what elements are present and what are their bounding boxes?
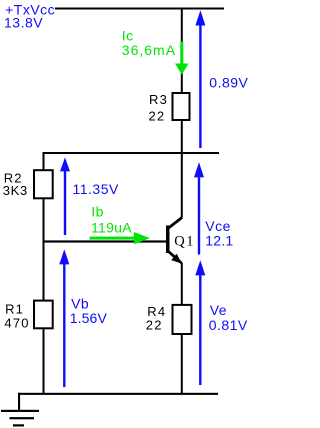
svg-text:Ib: Ib [91,204,104,220]
svg-text:470: 470 [4,316,29,331]
wire collector vertical [181,153,183,218]
wire collector top segment [181,8,183,92]
label Vb [70,296,108,326]
label Ve [209,302,248,333]
svg-text:119uA: 119uA [91,220,132,236]
svg-text:22: 22 [149,108,166,123]
voltage arrow Vce [194,162,204,254]
label R2 [3,171,28,198]
wire R3 bottom to mid rail [181,121,183,153]
resistor R1 [34,301,53,329]
svg-text:Ve: Ve [210,302,227,318]
current arrow Ib [90,232,150,244]
label R4 [146,304,167,333]
wire mid rail [43,152,220,154]
voltage arrow Ve [195,260,205,385]
transistor Q1 [166,218,182,264]
wire bottom rail [18,393,218,395]
svg-text:13.8V: 13.8V [4,15,43,31]
wire emitter vertical [181,263,183,305]
label R3 [149,92,169,123]
svg-text:R1: R1 [5,301,24,316]
svg-text:0.81V: 0.81V [209,317,248,333]
wire base [43,240,166,242]
wire top rail [55,8,224,10]
svg-text:Ic: Ic [122,28,134,44]
resistor R3 [173,93,190,120]
wire R4 bottom [181,335,183,394]
label Ic value [122,28,176,59]
svg-text:22: 22 [146,318,163,333]
ground [1,393,39,427]
svg-text:11.35V: 11.35V [73,181,119,197]
label Ib value [91,204,132,236]
svg-text:R3: R3 [149,92,168,107]
voltage arrow 11.35V [60,157,70,235]
node +TxVcc label [4,2,55,31]
current arrow Ic [175,42,189,75]
svg-text:12.1: 12.1 [205,232,233,248]
svg-text:36,6mA: 36,6mA [122,42,176,58]
svg-text:1.56V: 1.56V [70,310,108,326]
svg-text:0.89V: 0.89V [209,75,248,91]
voltage arrow 0.89V [195,10,205,148]
svg-text:3K3: 3K3 [3,183,28,198]
svg-text:Q1: Q1 [174,233,195,249]
label R1 [4,301,29,330]
wire left vertical [43,152,45,394]
voltage arrow Vb [59,249,69,387]
resistor R4 [173,305,192,334]
label Vce [205,218,233,249]
resistor R2 [34,170,53,198]
